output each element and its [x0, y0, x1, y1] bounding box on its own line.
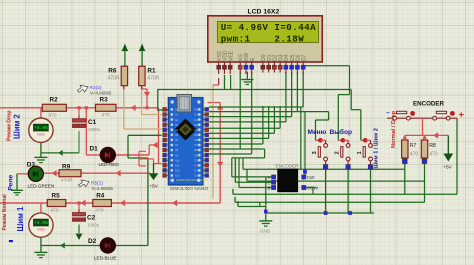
svg-text:D11: D11	[195, 163, 200, 167]
svg-text:U= 4.96V I=0.44A: U= 4.96V I=0.44A	[221, 22, 316, 33]
svg-text:D2: D2	[88, 238, 97, 245]
svg-text:D7: D7	[301, 54, 307, 61]
svg-text:+5V: +5V	[443, 165, 452, 171]
svg-text:1000u: 1000u	[88, 127, 101, 132]
svg-text:CCW: CCW	[307, 186, 319, 192]
svg-text:D1: D1	[195, 113, 199, 117]
svg-text:A11: A11	[175, 163, 180, 167]
svg-text:Режим Normal: Режим Normal	[2, 194, 8, 231]
svg-text:A7: A7	[175, 143, 179, 147]
svg-text:A9: A9	[175, 153, 179, 157]
svg-text:CW: CW	[307, 175, 315, 181]
svg-text:A1: A1	[175, 113, 179, 117]
svg-text:D2: D2	[195, 118, 199, 122]
svg-text:R6: R6	[108, 68, 117, 75]
svg-text:470: 470	[51, 208, 59, 214]
svg-text:Volts: Volts	[37, 133, 45, 137]
svg-text:470: 470	[410, 152, 419, 158]
svg-text:−: −	[386, 110, 390, 117]
svg-text:LED-BLUE: LED-BLUE	[94, 256, 116, 261]
svg-text:Реле: Реле	[8, 174, 15, 190]
svg-text:A2: A2	[175, 118, 179, 122]
svg-text:A4: A4	[175, 128, 179, 132]
svg-text:LCD 16X2: LCD 16X2	[248, 9, 280, 16]
svg-text:A0: A0	[175, 108, 179, 112]
svg-text:R7: R7	[410, 143, 417, 149]
svg-text:C1: C1	[88, 119, 97, 126]
svg-text:B: B	[268, 186, 271, 191]
svg-text:+4.96: +4.96	[34, 220, 48, 226]
svg-text:D3: D3	[27, 162, 36, 169]
svg-text:A12: A12	[175, 169, 180, 173]
svg-text:+5V: +5V	[149, 184, 158, 190]
svg-text:C2: C2	[87, 215, 96, 222]
svg-text:R9: R9	[62, 164, 71, 171]
svg-text:D9: D9	[195, 153, 199, 157]
svg-text:A10: A10	[175, 158, 180, 162]
svg-text:Шим 1: Шим 1	[16, 206, 25, 232]
svg-text:470R: 470R	[61, 178, 73, 184]
svg-text:D4: D4	[195, 128, 199, 132]
svg-text:A6: A6	[175, 138, 179, 142]
svg-text:A3: A3	[175, 123, 179, 127]
svg-text:ENCODER: ENCODER	[413, 101, 444, 108]
svg-text:Volts: Volts	[37, 228, 45, 232]
svg-text:470: 470	[102, 112, 110, 118]
svg-text:Шим 2: Шим 2	[13, 113, 22, 139]
svg-text:D12: D12	[195, 169, 200, 173]
svg-text:470: 470	[49, 113, 57, 119]
svg-text:VEE: VEE	[228, 50, 234, 61]
svg-text:470: 470	[96, 208, 104, 214]
svg-text:470R: 470R	[108, 76, 120, 82]
svg-text:+: +	[31, 214, 34, 219]
svg-text:D5: D5	[195, 133, 199, 137]
svg-text:470R: 470R	[147, 76, 159, 82]
svg-text:pwm:1 2.18W: pwm:1 2.18W	[221, 34, 305, 45]
svg-text:V=4.96065: V=4.96065	[90, 90, 112, 95]
svg-text:D7: D7	[195, 143, 199, 147]
svg-text:Шим 1 / Шим 2: Шим 1 / Шим 2	[374, 128, 380, 168]
svg-text:A: A	[268, 175, 271, 180]
svg-text:A5: A5	[175, 133, 179, 137]
svg-text:+: +	[31, 119, 34, 124]
svg-text:WWW.SIMULINO.COM: WWW.SIMULINO.COM	[176, 178, 208, 182]
svg-text:D1: D1	[90, 146, 99, 153]
svg-text:ENCODER: ENCODER	[276, 163, 300, 168]
svg-text:+: +	[459, 110, 465, 121]
svg-text:D6: D6	[195, 138, 199, 142]
svg-text:2: 2	[334, 151, 340, 154]
svg-text:LED-GREEN: LED-GREEN	[28, 184, 55, 189]
svg-text:D10: D10	[195, 158, 200, 162]
svg-text:R2: R2	[50, 97, 59, 104]
svg-text:D0: D0	[195, 108, 199, 112]
svg-text:D8: D8	[195, 148, 199, 152]
svg-text:GND: GND	[260, 229, 271, 234]
svg-text:Меню: Меню	[308, 129, 327, 136]
svg-text:R4: R4	[96, 193, 105, 200]
svg-text:Выбор: Выбор	[330, 128, 353, 136]
svg-text:V=4.96065: V=4.96065	[92, 186, 114, 191]
svg-text:R8: R8	[429, 143, 436, 149]
svg-text:R3: R3	[100, 97, 109, 104]
svg-text:1000u: 1000u	[87, 223, 100, 228]
svg-text:+4.96: +4.96	[34, 125, 48, 131]
svg-text:A8: A8	[175, 148, 179, 152]
svg-text:R5: R5	[52, 193, 61, 200]
svg-text:D3: D3	[195, 123, 199, 127]
svg-text:SIMULINO NANO: SIMULINO NANO	[170, 186, 209, 192]
svg-text:470: 470	[429, 152, 438, 158]
svg-text:R1: R1	[147, 68, 156, 75]
svg-text:LED-RED: LED-RED	[99, 162, 120, 167]
